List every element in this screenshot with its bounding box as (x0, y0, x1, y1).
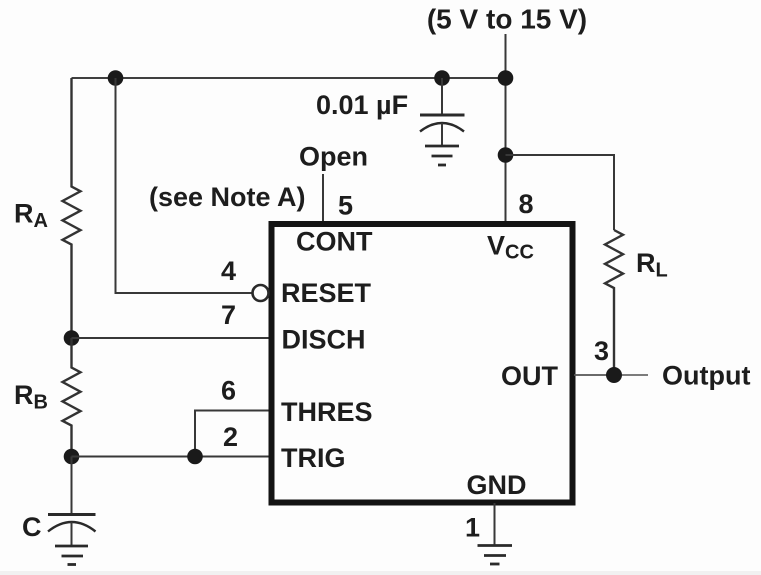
svg-text:C: C (22, 512, 42, 542)
resistor RL (605, 230, 623, 375)
capacitor C curved plate (48, 522, 96, 532)
svg-text:OUT: OUT (501, 361, 559, 391)
node junction RL branch (498, 147, 514, 163)
svg-text:VCC: VCC (487, 231, 534, 264)
capacitor C top plate (48, 513, 96, 516)
svg-text:4: 4 (221, 256, 236, 286)
wire top horizontal bus (72, 77, 506, 79)
node junction bypass cap (434, 70, 450, 86)
svg-text:CONT: CONT (296, 227, 373, 257)
capacitor C lower stem (71, 522, 73, 546)
svg-text:RL: RL (636, 248, 668, 282)
capacitor C stem (71, 457, 73, 515)
svg-text:1: 1 (465, 513, 480, 543)
svg-text:GND: GND (467, 470, 527, 500)
svg-text:7: 7 (221, 300, 236, 330)
capacitor bypass curved plate (420, 123, 464, 132)
svg-text:(see Note A): (see Note A) (149, 182, 306, 212)
wire pin 5 CONT (322, 174, 324, 224)
svg-text:8: 8 (519, 189, 534, 219)
wire THRES pin 6 (195, 411, 269, 457)
ground C (55, 546, 88, 565)
svg-text:6: 6 (221, 376, 236, 406)
wire RESET branch vertical (116, 78, 253, 293)
wire OUT pin 3 (574, 374, 614, 376)
wire supply vertical VCC feed (505, 34, 507, 224)
wire GND pin 1 (494, 503, 496, 546)
svg-text:DISCH: DISCH (282, 325, 366, 355)
RESET bubble (253, 285, 269, 301)
svg-text:3: 3 (594, 336, 609, 366)
svg-text:0.01 µF: 0.01 µF (316, 90, 408, 120)
node junction top-left (108, 70, 124, 86)
capacitor bypass stem (441, 78, 443, 115)
node junction TRIG left (64, 449, 80, 465)
svg-text:TRIG: TRIG (281, 443, 346, 473)
node junction DISCH (64, 330, 80, 346)
svg-text:(5 V to 15 V): (5 V to 15 V) (427, 4, 587, 35)
op IC box 555 timer U1 (272, 224, 573, 503)
capacitor bypass lower stem (441, 123, 443, 146)
svg-text:RB: RB (14, 380, 48, 414)
svg-text:5: 5 (338, 191, 353, 221)
wire TRIG pin 2 (72, 456, 269, 458)
resistor RA (63, 78, 81, 338)
svg-text:THRES: THRES (281, 397, 373, 427)
svg-text:2: 2 (223, 422, 238, 452)
ground GND pin (478, 546, 513, 565)
node junction supply (498, 70, 514, 86)
node junction THRES-TRIG (187, 449, 203, 465)
capacitor bypass top plate (420, 114, 465, 117)
svg-text:Output: Output (662, 361, 750, 391)
svg-text:Open: Open (299, 142, 368, 172)
wire RL branch top (506, 155, 615, 230)
wire DISCH pin 7 (72, 337, 269, 339)
bottom strip (0, 571, 761, 575)
svg-text:RA: RA (14, 199, 48, 233)
resistor RB (63, 338, 81, 457)
ground bypass (425, 146, 459, 165)
wire output stub (622, 374, 648, 376)
svg-text:RESET: RESET (281, 278, 372, 308)
node junction OUT (606, 367, 622, 383)
